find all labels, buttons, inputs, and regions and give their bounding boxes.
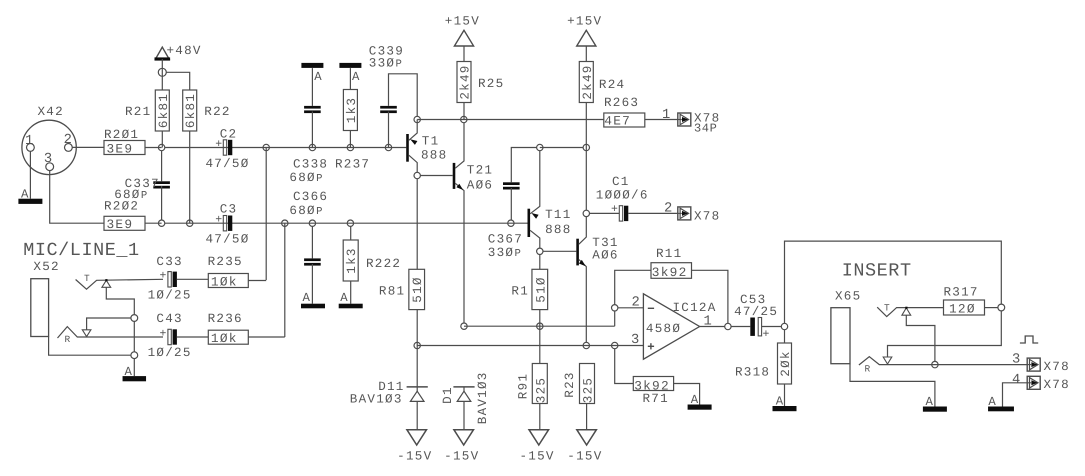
svg-text:+15V: +15V: [445, 15, 480, 29]
connector X52: [31, 260, 60, 336]
transistor T31: [576, 217, 618, 343]
svg-text:6k81: 6k81: [157, 93, 171, 128]
svg-text:68Ø: 68Ø: [289, 204, 315, 218]
capacitor C3: [206, 202, 250, 246]
resistor R25: [457, 62, 504, 103]
pin 3 circle: [46, 163, 54, 171]
svg-text:X42: X42: [38, 105, 64, 119]
wire: [388, 112, 390, 148]
junction: [461, 116, 467, 122]
svg-text:R263: R263: [604, 96, 639, 110]
svg-text:R317: R317: [944, 285, 979, 299]
power +15V: [567, 15, 602, 62]
wire: [785, 241, 1002, 323]
label R: [65, 334, 72, 345]
svg-text:P: P: [141, 190, 147, 202]
junction: [414, 172, 420, 178]
wire: [615, 349, 634, 384]
wire: [311, 112, 313, 148]
svg-text:4: 4: [1012, 373, 1022, 388]
svg-text:1Ø/25: 1Ø/25: [148, 288, 192, 302]
connector X65: [831, 289, 862, 363]
svg-text:X65: X65: [835, 289, 861, 303]
wire: [416, 179, 418, 270]
pin 3 label: [44, 152, 54, 167]
power -15V: [444, 430, 479, 464]
power -15V: [519, 430, 554, 464]
svg-text:P: P: [316, 206, 322, 218]
svg-text:1k3: 1k3: [345, 247, 359, 273]
junction: [537, 323, 543, 329]
svg-text:P: P: [515, 248, 521, 260]
resistor R22: [183, 90, 231, 131]
wire: [145, 222, 162, 224]
junction: [282, 220, 288, 226]
svg-text:+: +: [215, 138, 223, 151]
ground: [301, 63, 323, 84]
wire: [177, 278, 208, 280]
svg-text:X78: X78: [694, 209, 720, 223]
wire: [133, 321, 135, 351]
svg-text:2Øk: 2Øk: [779, 350, 793, 376]
label MIC/LINE_1: [23, 240, 140, 261]
junction: [932, 361, 938, 367]
pin 1 circle: [27, 144, 35, 152]
wire: [165, 222, 528, 224]
svg-text:X78: X78: [1044, 378, 1070, 392]
wire: [674, 384, 700, 405]
jack tip contact: [877, 307, 943, 316]
svg-text:1: 1: [703, 315, 713, 330]
svg-text:3E9: 3E9: [107, 141, 134, 156]
wire: [906, 315, 935, 361]
wire: [539, 310, 541, 364]
wire: [731, 326, 750, 328]
junction: [583, 342, 589, 348]
wire: [692, 270, 728, 323]
resistor R201: [104, 128, 145, 156]
wire: [248, 280, 266, 282]
svg-text:47/25: 47/25: [734, 305, 778, 319]
junction: [583, 210, 589, 216]
power +15V: [445, 15, 480, 62]
svg-text:R21: R21: [125, 105, 151, 119]
junction: [612, 305, 618, 311]
connector X78 pin4: [1027, 376, 1070, 392]
wire: [628, 212, 677, 214]
wire: [145, 147, 162, 149]
svg-text:T11: T11: [545, 208, 571, 222]
svg-text:47/5Ø: 47/5Ø: [206, 157, 250, 171]
svg-text:+: +: [160, 270, 168, 283]
wire: [420, 175, 452, 177]
svg-text:51Ø: 51Ø: [411, 276, 425, 302]
wire: [539, 255, 541, 270]
svg-text:MIC/LINE_1: MIC/LINE_1: [23, 240, 140, 261]
wire: [72, 146, 104, 148]
wire: [985, 307, 998, 309]
wire: [350, 281, 352, 304]
ground: [988, 395, 1014, 411]
resistor R71: [633, 377, 673, 407]
svg-text:34P: 34P: [694, 122, 717, 136]
pin 2 label: [664, 201, 674, 216]
svg-text:X78: X78: [1044, 360, 1070, 374]
wire: [106, 287, 134, 314]
capacitor C338: [289, 106, 328, 185]
svg-text:T21: T21: [467, 164, 493, 178]
transistor T1: [406, 120, 447, 173]
svg-text:A: A: [926, 395, 935, 409]
pin 2 label: [631, 296, 641, 311]
resistor R202: [104, 199, 145, 232]
wire: [161, 186, 163, 220]
capacitor C339: [369, 45, 404, 114]
svg-text:3: 3: [631, 333, 641, 348]
junction: [158, 220, 164, 226]
ground: [18, 187, 42, 204]
wire: [349, 68, 351, 89]
wire: [161, 131, 163, 148]
svg-text:888: 888: [545, 223, 571, 237]
svg-text:2k49: 2k49: [459, 64, 473, 99]
junction: [537, 248, 543, 254]
wire: [389, 74, 418, 117]
svg-text:1Øk: 1Øk: [211, 274, 238, 289]
pin 1 label: [662, 108, 672, 123]
svg-text:3: 3: [1012, 353, 1022, 368]
connector X78 pin1: [678, 112, 721, 136]
label INSERT: [842, 261, 912, 282]
svg-text:12Ø: 12Ø: [949, 301, 976, 316]
wire: [416, 310, 418, 387]
svg-text:-15V: -15V: [397, 449, 432, 463]
capacitor C337: [114, 177, 170, 202]
junction: [725, 323, 731, 329]
svg-text:3k92: 3k92: [652, 265, 688, 280]
wire: [511, 148, 536, 183]
svg-text:AØ6: AØ6: [592, 249, 618, 263]
svg-text:33Ø: 33Ø: [369, 56, 395, 70]
svg-text:51Ø: 51Ø: [534, 276, 548, 302]
capacitor C366: [289, 190, 328, 266]
resistor R11: [651, 247, 692, 280]
svg-text:C367: C367: [488, 233, 523, 247]
capacitor C1: [596, 175, 649, 221]
svg-text:A: A: [691, 393, 700, 407]
wire: [417, 345, 643, 347]
wire: [416, 401, 418, 429]
svg-text:A: A: [352, 70, 361, 84]
wire: [700, 326, 725, 328]
junction: [158, 144, 164, 150]
wire: [417, 119, 604, 121]
wire: [311, 226, 313, 258]
diode D11: [350, 380, 428, 407]
label T: [84, 273, 91, 284]
wire: [87, 318, 132, 330]
svg-text:1: 1: [662, 108, 672, 123]
ground: [923, 395, 947, 412]
junction: [781, 323, 787, 329]
wire: [614, 311, 616, 326]
wire: [463, 401, 465, 429]
transistor T21: [453, 123, 494, 323]
wire: [166, 72, 189, 90]
svg-text:1ØØØ/6: 1ØØØ/6: [596, 188, 649, 202]
capacitor C2: [206, 127, 250, 171]
wire: [349, 131, 351, 148]
wire: [464, 325, 615, 327]
svg-text:R25: R25: [478, 77, 504, 91]
power -15V: [567, 430, 602, 464]
svg-text:68Ø: 68Ø: [114, 188, 140, 202]
pin 4 label: [1012, 373, 1022, 388]
jack tip contact: [76, 279, 163, 289]
junction: [385, 144, 391, 150]
svg-text:+15V: +15V: [567, 15, 602, 29]
svg-text:-15V: -15V: [519, 449, 554, 463]
junction: [347, 220, 353, 226]
svg-text:BAV1Ø3: BAV1Ø3: [476, 371, 490, 424]
wire: [888, 311, 1002, 357]
jack ring contact: [859, 357, 1027, 365]
svg-text:R236: R236: [208, 312, 243, 326]
terminal circle: [998, 304, 1005, 311]
wire: [189, 131, 191, 223]
wire: [784, 330, 786, 343]
svg-text:R11: R11: [656, 247, 682, 261]
svg-text:AØ6: AØ6: [467, 179, 493, 193]
power +48V: [155, 44, 202, 90]
tip switch arrow: [902, 307, 911, 316]
svg-text:2k49: 2k49: [581, 64, 595, 99]
resistor R317: [944, 285, 985, 316]
capacitor C43: [148, 312, 192, 360]
wire: [543, 250, 576, 252]
svg-text:A: A: [988, 395, 997, 409]
junction: [131, 352, 138, 359]
ground: [773, 395, 797, 412]
resistor R81: [379, 269, 425, 309]
svg-text:-15V: -15V: [567, 449, 602, 463]
resistor R91: [516, 364, 548, 404]
wire: [311, 264, 313, 304]
svg-text:A: A: [340, 291, 349, 305]
ground: [339, 63, 361, 84]
wire: [762, 326, 782, 328]
svg-text:C43: C43: [156, 312, 182, 326]
ring switch arrow: [82, 330, 91, 337]
svg-text:4E7: 4E7: [604, 114, 631, 129]
svg-text:X52: X52: [33, 260, 59, 274]
pin 3 label: [1012, 353, 1022, 368]
wire: [133, 359, 135, 377]
svg-text:33Ø: 33Ø: [488, 246, 514, 260]
svg-text:BAV1Ø3: BAV1Ø3: [350, 393, 403, 407]
svg-text:1k3: 1k3: [345, 97, 359, 123]
wire: [784, 384, 786, 406]
svg-text:R222: R222: [366, 257, 401, 271]
ground: [301, 291, 325, 308]
svg-text:A: A: [303, 291, 312, 305]
svg-text:3: 3: [44, 152, 54, 167]
pin 2 label: [64, 133, 74, 148]
resistor R1: [511, 269, 548, 309]
svg-text:P: P: [396, 58, 402, 70]
connector X42: [22, 105, 76, 175]
wire: [311, 68, 313, 106]
svg-text:+: +: [160, 327, 168, 340]
wire: [539, 404, 541, 430]
resistor R24: [579, 62, 625, 103]
svg-text:3E9: 3E9: [107, 217, 134, 232]
svg-text:6k81: 6k81: [184, 93, 198, 128]
svg-text:A: A: [125, 365, 134, 379]
sleeve wire: [850, 364, 935, 407]
svg-text:R2Ø1: R2Ø1: [104, 128, 139, 142]
junction: [508, 220, 514, 226]
wire: [350, 226, 352, 240]
resistor R21: [125, 90, 171, 131]
wire: [590, 212, 620, 214]
svg-text:T: T: [84, 273, 91, 284]
resistor R235: [208, 255, 249, 290]
svg-text:R22: R22: [204, 105, 230, 119]
svg-text:P: P: [316, 173, 322, 185]
junction: [347, 144, 353, 150]
svg-text:R: R: [865, 364, 872, 375]
svg-text:INSERT: INSERT: [842, 261, 912, 282]
svg-text:325: 325: [534, 377, 548, 403]
svg-text:D1: D1: [441, 386, 455, 404]
junction: [309, 144, 315, 150]
svg-text:2: 2: [631, 296, 641, 311]
wire: [540, 147, 583, 149]
terminal circle: [158, 68, 166, 76]
jack ring contact: [58, 327, 164, 338]
svg-text:R81: R81: [379, 284, 405, 298]
resistor R222: [343, 240, 401, 281]
resistor R263: [604, 96, 645, 129]
pin 2 circle: [65, 144, 73, 152]
wire: [510, 188, 512, 220]
svg-text:R237: R237: [335, 157, 370, 171]
junction: [414, 116, 420, 122]
svg-text:68Ø: 68Ø: [289, 171, 315, 185]
junction: [583, 144, 589, 150]
svg-text:C33: C33: [156, 255, 182, 269]
capacitor C53: [734, 293, 778, 341]
resistor R237: [335, 90, 370, 172]
svg-text:+: +: [763, 328, 771, 341]
wire: [177, 336, 208, 338]
svg-text:R1: R1: [511, 284, 529, 298]
svg-text:A: A: [776, 395, 785, 409]
transistor T11: [528, 151, 572, 248]
wire: [161, 151, 163, 182]
svg-text:2: 2: [664, 201, 674, 216]
svg-text:47/5Ø: 47/5Ø: [206, 233, 250, 247]
junction: [461, 323, 467, 329]
pin 1 label: [25, 134, 35, 149]
ring switch arrow: [883, 357, 892, 364]
capacitor C33: [148, 255, 192, 303]
svg-text:1Ø/25: 1Ø/25: [148, 346, 192, 360]
wire: [586, 404, 588, 430]
junction: [612, 342, 618, 348]
svg-text:T: T: [884, 303, 891, 314]
svg-text:+: +: [215, 214, 223, 227]
op-amp IC12A: [631, 294, 717, 359]
svg-text:IC12A: IC12A: [673, 301, 717, 315]
ground: [688, 393, 712, 410]
label T: [884, 303, 891, 314]
connector X78 pin2: [678, 207, 721, 224]
svg-text:+: +: [611, 203, 619, 216]
diode D1: [441, 371, 490, 424]
wire: [50, 171, 104, 224]
svg-text:R91: R91: [516, 373, 530, 399]
svg-text:A: A: [314, 70, 323, 84]
power -15V: [397, 430, 432, 464]
svg-text:325: 325: [582, 377, 596, 403]
wire: [248, 336, 284, 338]
ground: [123, 365, 147, 382]
wire: [585, 103, 587, 211]
pulse icon: [1020, 336, 1038, 343]
junction: [414, 342, 420, 348]
svg-text:A: A: [21, 187, 30, 201]
svg-text:1Øk: 1Øk: [211, 331, 238, 346]
wire: [1003, 383, 1028, 407]
svg-text:458Ø: 458Ø: [646, 322, 681, 336]
resistor R318: [735, 343, 793, 384]
junction: [263, 144, 269, 150]
svg-text:+48V: +48V: [167, 44, 202, 58]
wire: [645, 119, 678, 121]
wire: [284, 223, 286, 337]
label R: [865, 364, 872, 375]
connector X78 pin3: [1027, 358, 1070, 374]
svg-text:-15V: -15V: [444, 449, 479, 463]
svg-text:C366: C366: [293, 190, 328, 204]
junction: [537, 144, 543, 150]
capacitor C367: [488, 182, 523, 260]
svg-text:R23: R23: [563, 371, 577, 397]
svg-text:R: R: [65, 334, 72, 345]
svg-text:R235: R235: [208, 255, 243, 269]
wire: [29, 151, 31, 198]
svg-text:888: 888: [421, 149, 447, 163]
svg-text:C338: C338: [293, 157, 328, 171]
svg-text:C1: C1: [612, 175, 630, 189]
svg-text:R24: R24: [599, 78, 625, 92]
svg-text:R318: R318: [735, 366, 770, 380]
svg-text:R71: R71: [643, 392, 669, 406]
junction: [187, 220, 193, 226]
sleeve wire: [49, 337, 132, 356]
tip switch arrow: [102, 279, 111, 287]
resistor R23: [563, 364, 596, 404]
wire: [463, 103, 465, 120]
junction: [131, 315, 138, 322]
wire: [165, 147, 406, 149]
wire: [618, 307, 644, 309]
resistor R236: [208, 312, 249, 346]
wire: [265, 148, 267, 281]
junction: [309, 220, 315, 226]
